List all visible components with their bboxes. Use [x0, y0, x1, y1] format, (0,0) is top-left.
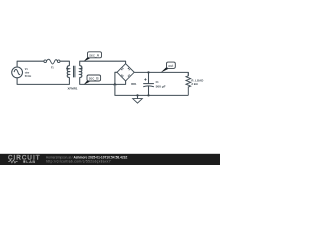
svg-text:sec_A: sec_A — [89, 54, 99, 58]
bridge diodes — [121, 67, 131, 77]
junction dot ground — [136, 94, 138, 96]
primary winding — [67, 66, 69, 78]
watermark logo CIRCUIT LAB — [8, 155, 41, 165]
net label callout sec_A — [84, 52, 102, 62]
watermark text — [46, 155, 127, 163]
svg-text:2 kΩ: 2 kΩ — [191, 82, 198, 86]
svg-text:http://circuitlab.com/c/552sdq: http://circuitlab.com/c/552sdqx8axx7 — [46, 160, 111, 164]
net label callout out — [161, 62, 176, 73]
wire sec_B rail to bridge bottom — [80, 77, 126, 84]
svg-text:sec_B: sec_B — [89, 77, 99, 81]
svg-text:XFMR1: XFMR1 — [68, 86, 78, 90]
wire bridge left corner to ground rail — [115, 72, 188, 95]
wire sec_A rail to bridge top — [80, 61, 126, 66]
junction sec_B crossing — [113, 82, 117, 85]
label V1 sine 50 Hz — [25, 67, 32, 78]
wire out rail — [134, 72, 188, 75]
svg-text:LAB: LAB — [26, 160, 35, 164]
wire primary bottom rail — [17, 77, 69, 84]
net label callout sec_B — [84, 75, 101, 85]
ground — [133, 95, 143, 103]
label R_LOAD 2k — [191, 79, 204, 87]
svg-text:500 µF: 500 µF — [156, 84, 166, 88]
voltage source V1 — [12, 67, 23, 78]
svg-text:50 Hz: 50 Hz — [25, 74, 32, 78]
phase dot secondary — [81, 67, 83, 69]
wire fuse to transformer primary — [60, 61, 69, 66]
transformer XFMR1 — [67, 66, 82, 78]
wire primary top rail — [17, 61, 44, 67]
phase dot primary — [66, 68, 68, 70]
resistor R_LOAD — [186, 72, 191, 95]
secondary winding — [80, 66, 82, 78]
svg-text:F1: F1 — [51, 65, 54, 69]
svg-text:C1: C1 — [156, 80, 159, 84]
junction dot C1 top — [147, 71, 149, 73]
fuse F1 — [44, 59, 60, 64]
capacitor C1 — [143, 72, 154, 95]
junction dot C1 bottom — [147, 94, 149, 96]
label C1 500uF — [156, 80, 166, 88]
svg-text:out: out — [168, 64, 173, 68]
svg-text:BR1: BR1 — [131, 82, 136, 86]
bridge rectifier BR1 — [117, 64, 134, 81]
core — [74, 66, 75, 78]
watermark bar — [0, 154, 220, 165]
